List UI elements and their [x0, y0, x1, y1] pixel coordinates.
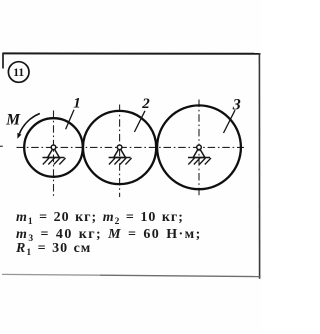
vertical centerline wheel 1: [53, 111, 55, 197]
wheel 2: [83, 111, 156, 184]
svg-text:M: M: [5, 111, 21, 128]
support 1 pivot: [51, 145, 56, 150]
support 3 hatching: [188, 158, 211, 165]
wheel 1: [24, 118, 83, 177]
support 3 pivot: [197, 145, 202, 150]
leader line label 3: [224, 110, 236, 133]
support 2 base line: [109, 157, 131, 159]
support 1 base line: [43, 157, 65, 159]
leader line label 2: [134, 111, 145, 132]
svg-text:3: 3: [232, 97, 241, 114]
data text line 1: [16, 210, 184, 226]
support 3 base line: [188, 157, 210, 159]
moment M arrowhead: [17, 133, 21, 139]
frame right border: [258, 53, 260, 279]
frame left border stub: [2, 53, 4, 69]
left-edge centerline tick: [0, 145, 3, 147]
support 2 hatching: [109, 158, 132, 165]
support 3 triangle: [193, 148, 205, 158]
frame bottom border: [2, 273, 100, 276]
data text line 2: [16, 227, 202, 243]
support 2 triangle: [114, 148, 126, 158]
leader line label 1: [66, 110, 74, 130]
support 2 pivot: [117, 145, 122, 150]
frame top border: [3, 52, 261, 54]
support 1 triangle: [48, 148, 60, 158]
svg-text:11: 11: [13, 67, 24, 79]
svg-text:1: 1: [73, 95, 81, 111]
wheel 3: [157, 105, 241, 189]
vertical centerline wheel 2: [119, 105, 121, 198]
data text line 3: [16, 241, 91, 257]
vertical centerline wheel 3: [198, 100, 200, 197]
horizontal centerline through all wheels: [17, 146, 245, 148]
problem number badge circle: [8, 62, 29, 83]
svg-text:2: 2: [141, 96, 150, 112]
moment M arc: [19, 114, 39, 134]
support 1 hatching: [43, 158, 66, 165]
